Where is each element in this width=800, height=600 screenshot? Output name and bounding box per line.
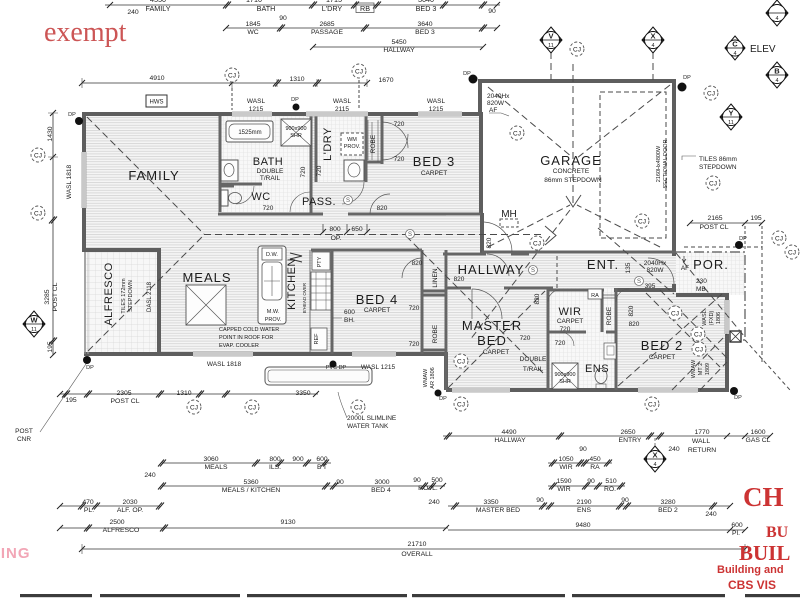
- dim rowA-left line: [60, 393, 318, 395]
- svg-text:CAPPED COLD WATER: CAPPED COLD WATER: [219, 327, 279, 333]
- hip family top: [87, 117, 204, 234]
- ldry wm prov: [341, 133, 363, 155]
- svg-text:135: 135: [625, 262, 632, 273]
- dim 5450 hallway: [383, 39, 415, 54]
- svg-text:1600: 1600: [750, 429, 765, 436]
- cj circles left: [31, 148, 45, 162]
- svg-text:MEALS: MEALS: [182, 270, 231, 285]
- porch post x: [730, 331, 741, 342]
- svg-text:240: 240: [127, 9, 139, 16]
- svg-text:720: 720: [263, 205, 274, 212]
- svg-text:195: 195: [47, 341, 54, 353]
- wall alfresco right: [157, 248, 161, 354]
- svg-text:450: 450: [589, 456, 601, 463]
- svg-text:5450: 5450: [391, 39, 406, 46]
- ridge hallway: [204, 234, 545, 236]
- door arc ent: [648, 258, 674, 284]
- svg-text:1809: 1809: [705, 363, 711, 375]
- window wasl1215 bed3 top: [418, 112, 462, 117]
- svg-text:11: 11: [31, 327, 37, 333]
- door arc bed4: [402, 258, 422, 278]
- svg-text:240: 240: [428, 499, 440, 506]
- tank leader: [338, 392, 347, 418]
- svg-text:900x900: 900x900: [285, 126, 306, 132]
- svg-text:240: 240: [668, 446, 680, 453]
- svg-text:RB: RB: [360, 4, 370, 13]
- svg-text:900: 900: [292, 456, 304, 463]
- garage hip tl: [488, 87, 572, 157]
- svg-text:DP: DP: [86, 365, 94, 371]
- svg-text:90: 90: [488, 8, 496, 15]
- dim row3 line: [313, 46, 483, 48]
- svg-text:KITCHEN: KITCHEN: [286, 258, 298, 310]
- wall bed3 east: [479, 112, 483, 215]
- svg-text:PROV.: PROV.: [344, 144, 361, 150]
- wall alfresco top: [84, 248, 159, 252]
- svg-text:ALFRESCO: ALFRESCO: [103, 262, 115, 325]
- svg-text:2305: 2305: [116, 390, 131, 397]
- svg-text:820: 820: [454, 276, 465, 283]
- ridge arrow: [545, 226, 556, 245]
- floor texture master/bed2 band: [448, 254, 727, 390]
- svg-text:ENS: ENS: [585, 363, 609, 375]
- marker drop X: [652, 52, 654, 80]
- svg-text:DP: DP: [439, 396, 447, 402]
- svg-text:B: B: [774, 67, 780, 76]
- svg-text:2650: 2650: [620, 429, 635, 436]
- floor texture ldry: [316, 116, 366, 182]
- wall bath east: [310, 116, 313, 214]
- svg-text:4: 4: [733, 51, 736, 57]
- svg-text:4: 4: [775, 16, 778, 22]
- window wasl1215 top: [232, 112, 272, 117]
- marker C4 elev: [725, 36, 745, 60]
- marker drop cj232: [231, 88, 233, 110]
- svg-text:720: 720: [394, 156, 405, 163]
- alfresco left edge: [84, 252, 86, 354]
- svg-text:720: 720: [300, 166, 307, 177]
- dim 21710 overall: [401, 541, 433, 558]
- tiles leader: [682, 156, 696, 160]
- svg-text:WASL 1215: WASL 1215: [361, 364, 396, 371]
- svg-text:DP: DP: [739, 236, 747, 242]
- svg-text:DASL 2118: DASL 2118: [147, 281, 153, 312]
- svg-text:BU: BU: [766, 524, 789, 541]
- svg-text:4: 4: [651, 43, 654, 49]
- svg-text:90: 90: [579, 446, 587, 453]
- svg-text:RETURN: RETURN: [688, 447, 716, 454]
- svg-text:CARPET: CARPET: [421, 170, 447, 177]
- water tank: [265, 367, 372, 385]
- svg-text:800: 800: [269, 456, 281, 463]
- svg-text:90: 90: [587, 478, 595, 485]
- marker drop V: [550, 52, 552, 80]
- wall bed2 east: [725, 293, 729, 390]
- svg-text:HALLWAY: HALLWAY: [494, 437, 526, 444]
- dim row4 line: [82, 82, 367, 84]
- svg-text:T/RAIL: T/RAIL: [260, 175, 281, 182]
- svg-text:WC: WC: [247, 29, 258, 36]
- svg-text:3350: 3350: [295, 390, 310, 397]
- wall ldry east / robe west: [365, 116, 368, 182]
- svg-text:3000: 3000: [374, 479, 389, 486]
- marker cut top right: [766, 0, 788, 26]
- svg-text:2165: 2165: [707, 215, 722, 222]
- window wasl fxd bed2 east: [725, 300, 730, 334]
- svg-text:exempt: exempt: [44, 17, 127, 48]
- svg-text:820: 820: [412, 260, 423, 267]
- svg-text:DP: DP: [734, 395, 742, 401]
- dim rowC-left line: [162, 485, 445, 487]
- mh dashed box: [500, 219, 518, 227]
- svg-text:ILS.: ILS.: [269, 464, 281, 471]
- svg-text:720: 720: [316, 165, 323, 176]
- svg-text:CBS VIS: CBS VIS: [728, 578, 776, 592]
- svg-text:1215: 1215: [429, 106, 444, 113]
- svg-text:AF: AF: [681, 265, 689, 272]
- marker W11 left: [23, 311, 45, 337]
- dp dots: [75, 75, 743, 397]
- door arc bed3 entry: [370, 194, 390, 214]
- svg-text:2500: 2500: [109, 519, 124, 526]
- svg-text:WMAW: WMAW: [691, 359, 697, 378]
- ens shower: [552, 363, 578, 389]
- svg-text:1215: 1215: [249, 106, 264, 113]
- svg-text:CNR: CNR: [17, 436, 31, 443]
- svg-text:MEALS / KITCHEN: MEALS / KITCHEN: [222, 487, 281, 494]
- marker X4: [642, 27, 664, 53]
- wall south right: [446, 388, 729, 392]
- wall garage south: [482, 251, 676, 254]
- svg-text:WIR: WIR: [557, 486, 570, 493]
- svg-text:4550: 4550: [150, 0, 166, 4]
- bed3 robe doors: [368, 120, 378, 162]
- wall bath/wc divider: [220, 184, 262, 186]
- svg-text:1525mm: 1525mm: [238, 130, 261, 136]
- svg-text:CARPET: CARPET: [364, 307, 390, 314]
- svg-text:D.W.: D.W.: [266, 252, 278, 258]
- wall garage top: [478, 79, 676, 83]
- svg-text:ELEV: ELEV: [750, 44, 776, 55]
- diag master down: [406, 236, 543, 373]
- svg-text:1590: 1590: [556, 478, 571, 485]
- wall hall north seg1: [443, 253, 486, 256]
- wall bed2 west: [615, 288, 618, 390]
- wall bed3 robe east: [366, 116, 382, 164]
- svg-text:230: 230: [696, 278, 707, 285]
- wall step master: [444, 352, 448, 390]
- svg-text:ROBE: ROBE: [370, 134, 377, 153]
- svg-text:FAMILY: FAMILY: [145, 4, 170, 13]
- bath tub: [226, 121, 273, 142]
- svg-text:BED 2: BED 2: [658, 507, 678, 514]
- svg-text:WASL: WASL: [427, 98, 446, 105]
- svg-text:Building and: Building and: [717, 564, 784, 576]
- svg-text:720: 720: [409, 341, 420, 348]
- svg-text:820: 820: [486, 237, 493, 248]
- svg-text:820W: 820W: [647, 267, 665, 274]
- wall linen/master west: [445, 250, 448, 390]
- floor texture ENT: [482, 253, 674, 290]
- svg-text:3640: 3640: [417, 21, 432, 28]
- svg-text:2030: 2030: [122, 499, 137, 506]
- svg-text:EVAP. COOLER: EVAP. COOLER: [219, 343, 259, 349]
- porch outer dashed: [684, 247, 762, 362]
- svg-text:ENT.: ENT.: [587, 257, 619, 272]
- svg-text:POST CL: POST CL: [700, 224, 729, 231]
- svg-text:L'DRY: L'DRY: [322, 127, 334, 161]
- svg-text:Y: Y: [728, 109, 733, 118]
- porch post drop dashes: [745, 226, 762, 250]
- svg-text:CH: CH: [743, 482, 784, 512]
- svg-text:2190: 2190: [576, 499, 591, 506]
- diag porch: [676, 253, 744, 336]
- svg-text:PASS.: PASS.: [302, 196, 336, 208]
- svg-text:STEPDOWN: STEPDOWN: [128, 280, 134, 312]
- marker X4 bottom: [644, 446, 666, 472]
- floor texture living areas: [86, 116, 446, 352]
- garage ridge arrow: [566, 195, 581, 207]
- porch outer diag: [745, 340, 790, 390]
- wall pass south left: [218, 213, 323, 216]
- wall master north seg1: [445, 287, 471, 290]
- marker V11: [540, 27, 562, 53]
- svg-text:BATH: BATH: [253, 156, 284, 168]
- svg-text:Pl.: Pl.: [732, 530, 740, 537]
- wall linen shelf divider: [422, 291, 446, 350]
- svg-text:MB: MB: [696, 286, 706, 293]
- svg-text:2000L SLIMLINE: 2000L SLIMLINE: [347, 415, 397, 422]
- svg-text:470: 470: [82, 499, 94, 506]
- wall ldry west: [315, 116, 318, 182]
- svg-text:MH: MH: [501, 209, 517, 220]
- svg-text:RA: RA: [590, 464, 600, 471]
- svg-text:820: 820: [534, 293, 541, 304]
- svg-text:DP: DP: [291, 97, 299, 103]
- diag ridge sw: [470, 210, 570, 340]
- svg-text:DP: DP: [68, 112, 76, 118]
- cj circles interior: [510, 126, 524, 140]
- garage hip br: [577, 205, 660, 247]
- svg-text:1310: 1310: [289, 76, 304, 83]
- door arc master: [472, 289, 502, 319]
- svg-text:395: 395: [645, 283, 656, 290]
- wc toilet: [221, 190, 228, 206]
- svg-text:MEALS: MEALS: [204, 464, 228, 471]
- diag ent to bed2: [598, 228, 674, 294]
- svg-text:CARPET: CARPET: [649, 354, 675, 361]
- cj circles right edge: [772, 231, 786, 245]
- svg-text:KING: KING: [0, 545, 31, 562]
- svg-text:3280: 3280: [660, 499, 675, 506]
- svg-text:POR.: POR.: [693, 257, 729, 272]
- svg-text:11: 11: [548, 43, 554, 49]
- garage door dashed rect: [600, 92, 666, 238]
- svg-text:T/RAIL: T/RAIL: [523, 366, 544, 373]
- svg-text:SHR: SHR: [559, 379, 571, 385]
- porch post: [730, 331, 741, 342]
- svg-text:86mm STEPDOWN: 86mm STEPDOWN: [544, 177, 602, 184]
- svg-text:2685: 2685: [319, 21, 334, 28]
- wall garage right: [672, 79, 676, 256]
- svg-text:4490: 4490: [501, 429, 516, 436]
- svg-text:ROBE: ROBE: [606, 306, 613, 325]
- svg-text:RO./L.: RO./L.: [418, 485, 438, 492]
- svg-text:BED 3: BED 3: [413, 154, 456, 169]
- wall ent east: [672, 284, 676, 292]
- svg-text:BH.: BH.: [344, 317, 355, 324]
- svg-text:BED 4: BED 4: [356, 292, 399, 307]
- svg-text:3640: 3640: [418, 0, 434, 4]
- wall robe2 strip: [602, 288, 616, 332]
- svg-text:C: C: [732, 40, 738, 49]
- door arc wc: [236, 186, 254, 204]
- svg-text:510: 510: [605, 478, 617, 485]
- door arc bath: [290, 192, 310, 212]
- window wasl1818 left: [82, 152, 87, 208]
- svg-text:ALFRESCO: ALFRESCO: [103, 527, 140, 534]
- ens vanity: [604, 343, 616, 359]
- window wasl1818 south: [193, 352, 253, 357]
- dim row1 line: [105, 4, 500, 6]
- kitchen sink zigzag: [290, 253, 302, 262]
- floor texture alfresco: [86, 250, 159, 354]
- svg-text:PASSAGE: PASSAGE: [311, 29, 343, 36]
- svg-text:V: V: [548, 32, 553, 41]
- svg-text:1770: 1770: [694, 429, 709, 436]
- svg-text:90: 90: [413, 477, 421, 484]
- svg-text:820: 820: [628, 305, 635, 316]
- svg-text:1845: 1845: [245, 21, 260, 28]
- wall kitchen north: [311, 249, 422, 252]
- cj circles top: [225, 68, 239, 82]
- svg-text:BED 4: BED 4: [371, 487, 391, 494]
- svg-text:2160Hx4800W: 2160Hx4800W: [656, 145, 662, 182]
- svg-text:STEPDOWN: STEPDOWN: [699, 164, 737, 171]
- wall wir/ens divider: [548, 331, 616, 334]
- svg-text:PTY: PTY: [317, 256, 323, 267]
- svg-text:ROBE: ROBE: [432, 324, 439, 343]
- diag wasl fxd bed2: [660, 290, 727, 358]
- svg-text:SECTIONAL DOOR: SECTIONAL DOOR: [663, 139, 669, 188]
- floor texture bath: [220, 116, 311, 212]
- svg-text:GARAGE: GARAGE: [540, 153, 602, 168]
- wall garage left upper: [478, 79, 482, 114]
- svg-text:90: 90: [279, 15, 287, 22]
- svg-text:820: 820: [629, 321, 640, 328]
- marker right B4: [766, 62, 788, 88]
- svg-text:HWS: HWS: [150, 100, 164, 106]
- svg-text:W: W: [30, 316, 38, 325]
- wall top main: [82, 112, 481, 116]
- wall bed2 ne / porch south: [676, 293, 727, 297]
- wall ent south: [614, 288, 676, 292]
- wall master north seg2: [504, 287, 553, 290]
- svg-text:WASL: WASL: [702, 310, 708, 325]
- svg-text:240: 240: [144, 472, 156, 479]
- window wmaw master south: [452, 388, 510, 393]
- diag master up: [448, 291, 545, 388]
- svg-text:WM: WM: [347, 137, 357, 143]
- svg-text:2040Hx: 2040Hx: [644, 260, 667, 267]
- wall bath west: [219, 116, 222, 212]
- window wasl2115 top: [306, 112, 368, 117]
- svg-text:POST CL: POST CL: [111, 398, 140, 405]
- svg-text:PVC DP: PVC DP: [326, 365, 347, 371]
- svg-text:9130: 9130: [280, 519, 295, 526]
- diag wmaw windows bed2: [672, 334, 727, 390]
- svg-text:5360: 5360: [243, 479, 258, 486]
- robe2 sliding doors: [603, 295, 615, 298]
- wall garage left lower: [480, 213, 484, 253]
- svg-text:WASL: WASL: [247, 98, 266, 105]
- marker drop cj359: [358, 80, 360, 110]
- svg-text:WASL: WASL: [333, 98, 352, 105]
- svg-text:OP.: OP.: [331, 235, 342, 242]
- svg-text:1310: 1310: [176, 390, 191, 397]
- svg-text:L'DRY: L'DRY: [322, 4, 343, 13]
- wall left: [82, 112, 86, 252]
- svg-text:11: 11: [728, 120, 734, 126]
- garage hip tr: [577, 85, 670, 158]
- ldry trough: [344, 160, 364, 181]
- window wasl1215 south: [352, 352, 396, 357]
- svg-text:720: 720: [560, 326, 571, 333]
- svg-text:DOUBLE: DOUBLE: [257, 168, 284, 175]
- svg-text:ENTRY: ENTRY: [619, 437, 642, 444]
- svg-text:LINEN: LINEN: [432, 268, 439, 287]
- svg-text:(FXD): (FXD): [709, 311, 715, 326]
- svg-text:ALF. OP.: ALF. OP.: [117, 507, 143, 514]
- svg-text:90: 90: [621, 497, 629, 504]
- svg-text:WMAW: WMAW: [423, 368, 429, 387]
- svg-text:1050: 1050: [558, 456, 573, 463]
- svg-text:RA: RA: [591, 293, 599, 299]
- svg-text:M.W.: M.W.: [267, 309, 280, 315]
- svg-text:MASTER: MASTER: [462, 318, 522, 333]
- svg-text:CARPET: CARPET: [483, 349, 509, 356]
- svg-text:500: 500: [431, 477, 443, 484]
- svg-text:PL.: PL.: [84, 507, 94, 514]
- svg-text:4: 4: [775, 78, 778, 84]
- svg-text:900x900: 900x900: [554, 372, 575, 378]
- wall linen west: [421, 250, 424, 354]
- svg-text:POST: POST: [15, 428, 33, 435]
- svg-text:BED: BED: [477, 333, 507, 348]
- svg-text:BATH: BATH: [257, 4, 276, 13]
- svg-text:1430: 1430: [47, 126, 54, 141]
- svg-text:WASL 1818: WASL 1818: [66, 165, 73, 200]
- svg-text:650: 650: [351, 226, 363, 233]
- wall kitchen/bed4 divider: [331, 250, 334, 354]
- svg-text:600: 600: [731, 522, 743, 529]
- dim rowE-left line: [60, 527, 448, 529]
- svg-text:DP: DP: [683, 75, 691, 81]
- svg-text:90: 90: [336, 479, 344, 486]
- svg-text:720: 720: [520, 335, 531, 342]
- svg-text:195: 195: [750, 215, 762, 222]
- shower bath: [281, 119, 311, 146]
- svg-text:HALLWAY: HALLWAY: [383, 47, 415, 54]
- wall hall north seg2: [511, 253, 529, 256]
- garage ridge vertical: [572, 64, 574, 206]
- svg-text:WASL 1818: WASL 1818: [207, 361, 242, 368]
- dim row2 line: [226, 27, 497, 29]
- kitchen stove grid: [311, 272, 331, 310]
- kitchen island: [258, 246, 286, 324]
- hip family bottom: [88, 235, 204, 351]
- svg-text:AR 1806: AR 1806: [430, 367, 436, 388]
